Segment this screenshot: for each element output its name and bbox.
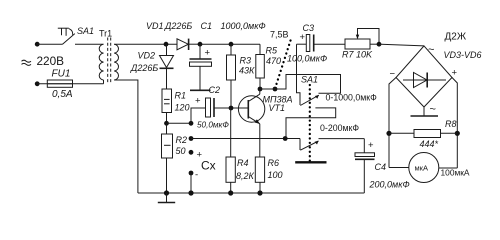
wire bridge minus down <box>389 78 396 168</box>
ground chassis under bridge <box>411 107 439 116</box>
wire R1 bottom to C2 branch <box>167 122 192 124</box>
svg-text:SA1: SA1 <box>77 26 94 36</box>
transistor VT1 <box>238 89 264 157</box>
ground chassis under C1 <box>190 89 211 91</box>
svg-text:+: + <box>195 96 201 107</box>
node R8 right <box>455 131 460 136</box>
wire C3 branch down to switch <box>297 44 301 105</box>
svg-text:−: − <box>390 69 396 80</box>
resistor R5 <box>256 44 264 89</box>
transformer Tr1 secondary winding <box>114 44 118 80</box>
svg-text:C4: C4 <box>375 162 387 172</box>
svg-text:0,5А: 0,5А <box>52 89 73 100</box>
resistor R2 <box>162 123 173 193</box>
dotted probe line 7,5V <box>276 41 291 88</box>
svg-text:R1: R1 <box>175 91 187 101</box>
switch gang dotted link <box>309 85 311 161</box>
potentiometer R7 <box>345 29 379 50</box>
svg-text:SA1: SA1 <box>301 75 318 85</box>
wire Cx plus to switch deck2 <box>191 138 300 140</box>
svg-text:R5: R5 <box>266 46 278 56</box>
node probe point <box>273 87 278 92</box>
node rail R4 <box>228 190 233 195</box>
svg-text:VT1: VT1 <box>269 103 286 113</box>
diode VD2 <box>160 44 174 89</box>
node R7 wiper junction <box>377 42 382 47</box>
node Cx plus branch <box>189 136 194 141</box>
node R1/R2 junction <box>164 121 169 126</box>
svg-text:+: + <box>300 32 306 43</box>
svg-text:VD2: VD2 <box>138 51 156 61</box>
node Cx minus terminal <box>189 171 194 176</box>
wire primary bottom jog <box>103 80 105 84</box>
svg-text:Д226Б: Д226Б <box>164 21 192 31</box>
svg-text:C1: C1 <box>201 21 213 31</box>
switch SA1 (mains push switch) <box>58 28 75 44</box>
svg-text:+: + <box>368 140 374 151</box>
svg-text:VD3-VD6: VD3-VD6 <box>444 50 482 60</box>
wire bottom rail <box>138 192 364 194</box>
svg-text:Cx: Cx <box>201 158 216 172</box>
node C2 branch <box>189 121 194 126</box>
svg-text:1000,0мкФ: 1000,0мкФ <box>221 21 266 31</box>
svg-text:470: 470 <box>266 56 281 66</box>
node collector / R5 bottom <box>258 87 263 92</box>
svg-text:0-200мкФ: 0-200мкФ <box>320 123 359 133</box>
wire to bridge <box>379 44 424 46</box>
wire secondary bottom to left vertical <box>114 80 138 193</box>
node: 220V input terminal top <box>35 42 40 47</box>
svg-text:Д226Б: Д226Б <box>130 63 158 73</box>
node C1 top <box>198 42 203 47</box>
diode VD1 <box>177 39 200 50</box>
svg-text:R7 10K: R7 10K <box>342 50 373 60</box>
bridge rectifier VD3-VD6 <box>396 46 452 107</box>
node R3 top <box>229 42 234 47</box>
node rail R6 <box>257 190 262 195</box>
node rail R2 <box>164 190 169 195</box>
svg-text:R3: R3 <box>240 56 252 66</box>
svg-text:43К: 43К <box>239 66 255 76</box>
svg-text:Tr1: Tr1 <box>99 29 112 39</box>
node rail Cx <box>188 190 193 195</box>
wire Cx minus to rail <box>190 173 192 193</box>
svg-text:R8: R8 <box>445 119 457 129</box>
transformer Tr1 core <box>107 38 109 85</box>
svg-text:0-1000,0мкФ: 0-1000,0мкФ <box>326 93 378 103</box>
svg-text:C2: C2 <box>209 85 221 95</box>
wire collector to SA1 contact <box>260 75 341 94</box>
resistor R8 <box>389 130 457 138</box>
svg-text:~: ~ <box>430 104 436 116</box>
capacitor C3 <box>297 35 346 52</box>
capacitor C4 <box>355 139 375 193</box>
transformer Tr1 primary winding <box>99 44 103 80</box>
wire top rail <box>200 43 260 45</box>
svg-text:100,0мкФ: 100,0мкФ <box>287 54 327 64</box>
node R8 left <box>386 131 391 136</box>
wire <box>75 43 104 45</box>
node base/R3/R4 junction <box>229 106 234 111</box>
node: 220V input terminal bottom <box>35 81 40 86</box>
capacitor C1 <box>190 44 212 89</box>
svg-text:+: + <box>205 48 211 59</box>
wire bridge plus down <box>452 78 457 169</box>
resistor R1 <box>162 89 172 123</box>
wire U-link contact for deck1 <box>286 108 336 139</box>
svg-text:120: 120 <box>175 103 190 113</box>
svg-text:-: - <box>195 170 198 181</box>
svg-text:50: 50 <box>176 146 186 156</box>
svg-text:Д2Ж: Д2Ж <box>445 32 467 43</box>
capacitor C2 <box>191 98 248 123</box>
svg-text:50,0мкФ: 50,0мкФ <box>197 121 229 130</box>
svg-text:7,5В: 7,5В <box>270 30 289 40</box>
meter uA <box>389 153 457 183</box>
svg-text:100: 100 <box>268 170 283 180</box>
svg-text:200,0мкФ: 200,0мкФ <box>369 180 410 190</box>
svg-text:444*: 444* <box>420 139 439 149</box>
svg-text:R2: R2 <box>176 135 188 145</box>
svg-text:100мкА: 100мкА <box>441 168 470 178</box>
label ~220V <box>22 60 32 62</box>
svg-text:VD1: VD1 <box>146 21 164 31</box>
ground symbol main <box>158 193 175 203</box>
resistor R6 <box>255 157 264 193</box>
contact bar deck2 alternate <box>295 161 326 163</box>
node U-link junction <box>283 136 288 141</box>
svg-text:R6: R6 <box>268 158 280 168</box>
switch SA1 deck2 arm <box>300 139 319 151</box>
wire deck2 contact to C4 <box>319 138 365 140</box>
svg-text:~: ~ <box>428 44 434 56</box>
node Cx plus terminal <box>189 150 194 155</box>
svg-text:FU1: FU1 <box>52 69 71 80</box>
wire secondary top to VD1/VD2 node <box>114 43 177 45</box>
node VD1/VD2 junction <box>164 42 169 47</box>
svg-text:220В: 220В <box>37 54 65 68</box>
svg-text:+: + <box>452 68 458 79</box>
switch SA1 deck1 arm <box>300 95 319 106</box>
svg-text:мкА: мкА <box>415 164 428 173</box>
svg-text:R4: R4 <box>237 158 249 168</box>
fuse FU1 <box>37 80 103 87</box>
resistor R3 <box>227 44 236 108</box>
wire <box>37 43 62 45</box>
svg-text:8,2К: 8,2К <box>236 171 255 181</box>
resistor R4 <box>226 108 235 193</box>
